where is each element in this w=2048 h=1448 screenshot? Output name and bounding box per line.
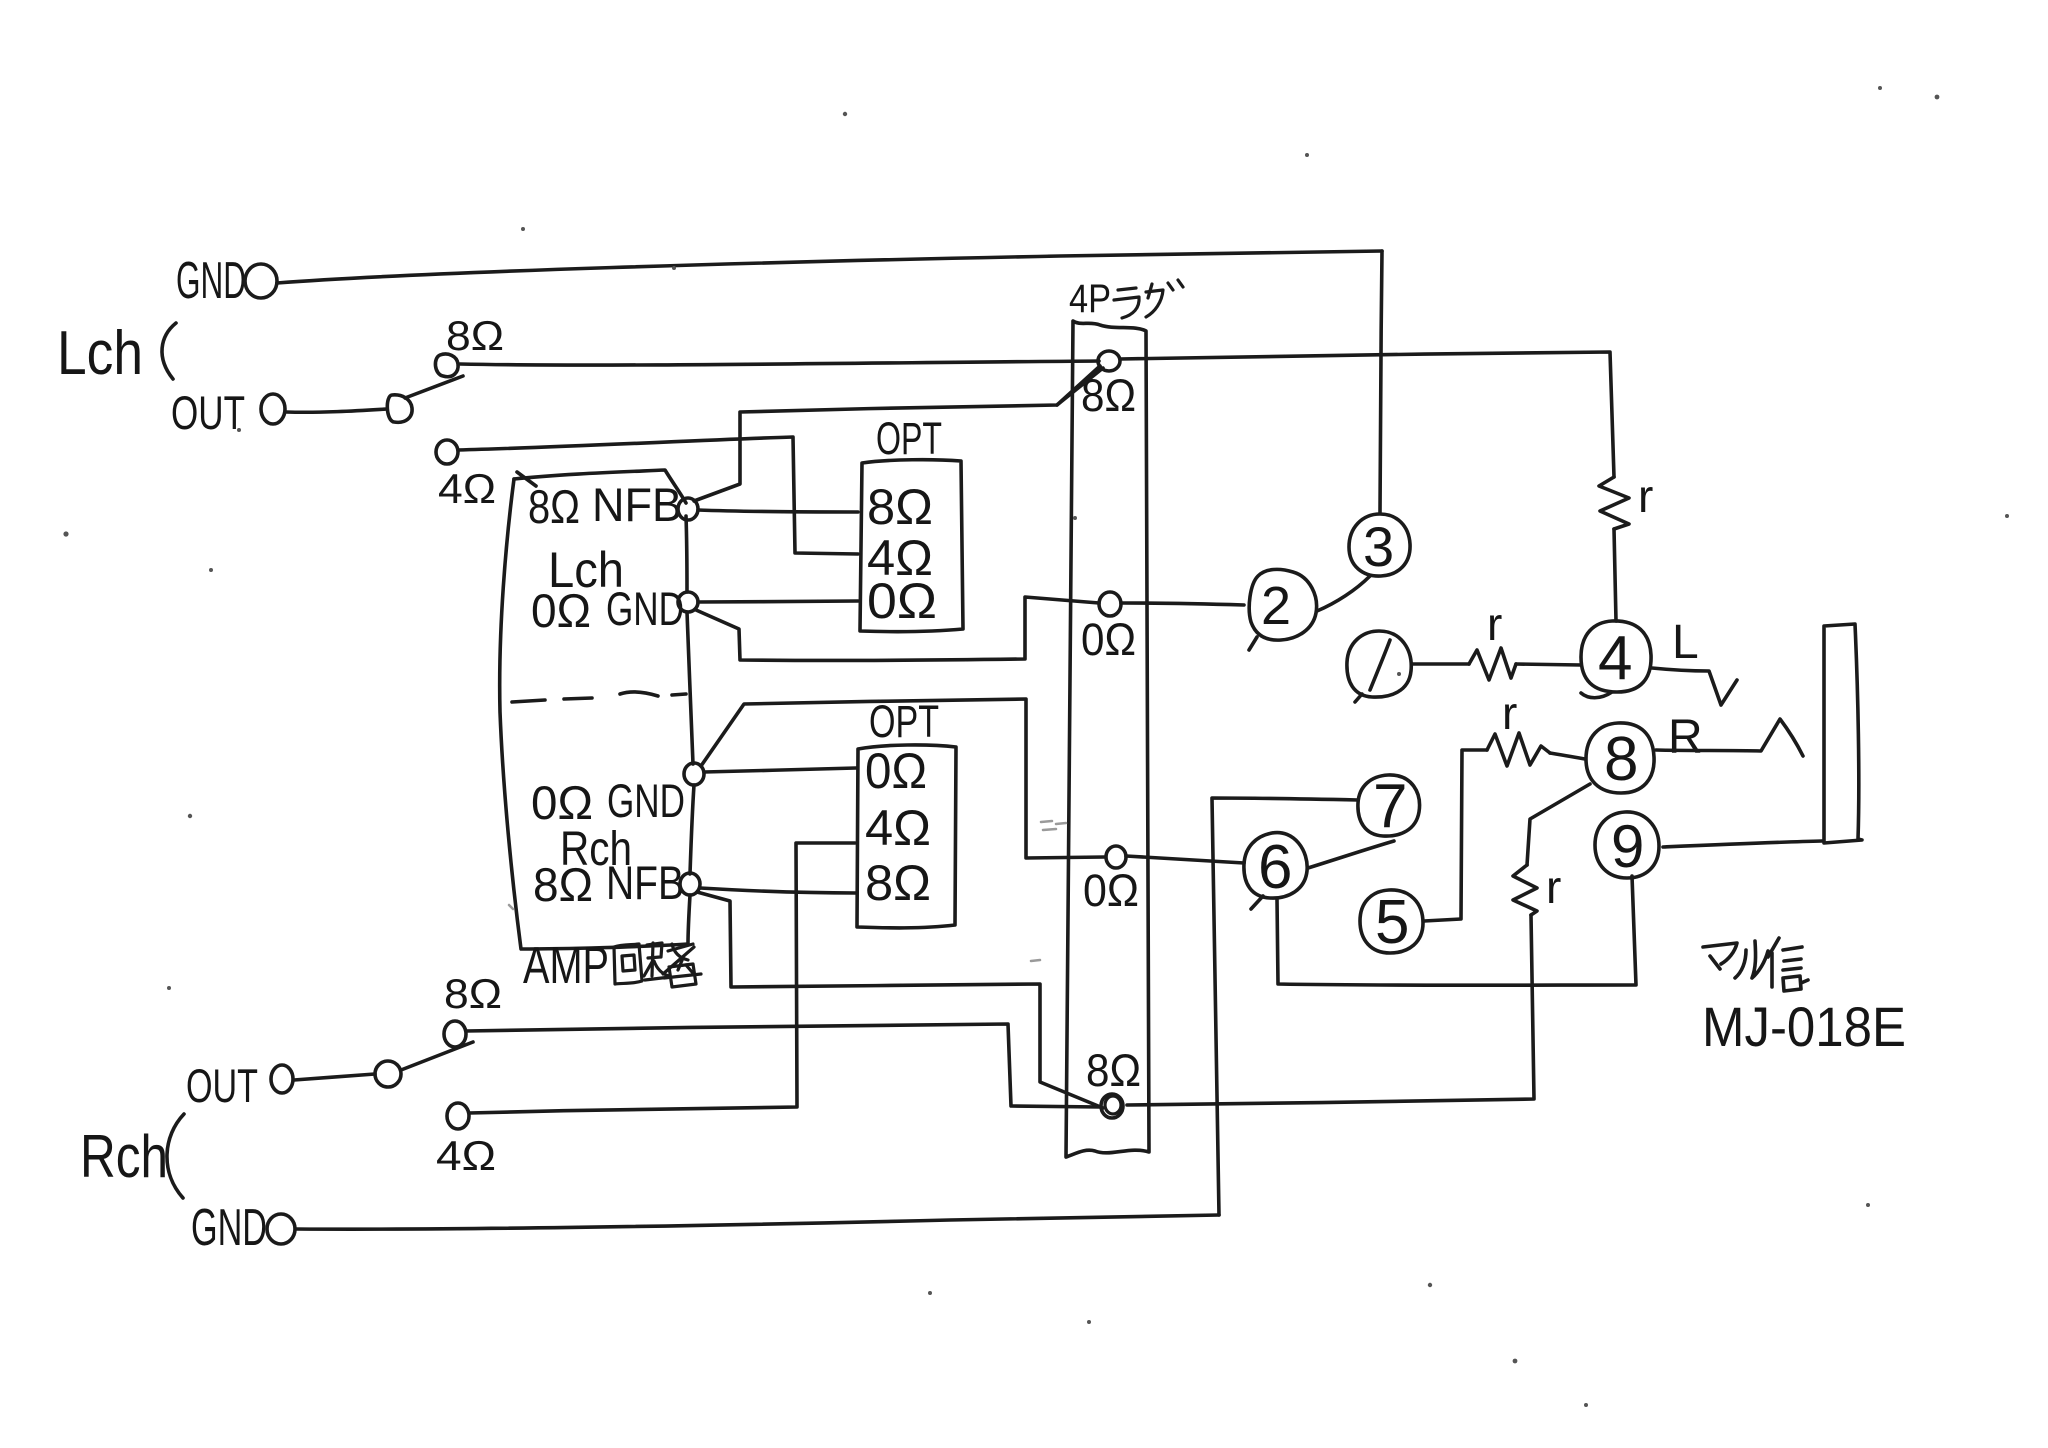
svg-text:GND: GND xyxy=(176,252,246,310)
resistor r2 (horizontal) xyxy=(1469,648,1516,680)
kanji RO (scribbled) xyxy=(644,943,701,987)
svg-text:L: L xyxy=(1672,616,1699,669)
svg-text:8Ω: 8Ω xyxy=(865,855,931,911)
svg-text:8Ω: 8Ω xyxy=(533,858,593,911)
wire: Rch GND over-path to strip terminal 3 xyxy=(701,699,1105,858)
8ohm contact circle (Rch) xyxy=(444,1021,466,1047)
svg-text:0Ω: 0Ω xyxy=(531,584,591,637)
wire: circle 1 to resistor r2 xyxy=(1413,662,1469,666)
AMP GND terminal (Rch) xyxy=(684,763,704,785)
dashed separator inside AMP block xyxy=(512,700,545,702)
OUT terminal circle (Lch) xyxy=(261,394,285,424)
switch pole circle (Lch) xyxy=(387,395,412,422)
kanji SHIN (trust) xyxy=(1768,938,1808,991)
svg-text:Rch: Rch xyxy=(80,1123,168,1190)
GND terminal circle (Lch) xyxy=(245,264,277,298)
wire: circle 8 R output with peak kink xyxy=(1656,719,1803,756)
GND terminal circle (Rch) xyxy=(267,1214,295,1244)
wire: resistor r3 to circle 8 xyxy=(1550,753,1585,759)
link circle 6 to circle 7 xyxy=(1308,841,1394,868)
link curve circle 3 to circle 2 xyxy=(1317,576,1370,611)
svg-text:Lch: Lch xyxy=(57,319,143,388)
SECTION:NOISE xyxy=(509,821,1066,961)
AMP GND terminal (Lch) xyxy=(678,592,698,612)
wire: resistor r2 to circle 4 xyxy=(1516,664,1581,665)
svg-text:2: 2 xyxy=(1261,576,1291,636)
wire: Lch NFB terminal to OPT 8ohm tap xyxy=(698,510,858,512)
svg-text:8Ω: 8Ω xyxy=(867,479,933,535)
wire: Rch NFB riser to strip terminal 4 xyxy=(697,892,1103,1108)
svg-text:OUT: OUT xyxy=(186,1059,258,1112)
wire: circle 9 right to jack plate xyxy=(1663,841,1822,847)
svg-text:OUT: OUT xyxy=(171,386,245,439)
svg-text:5: 5 xyxy=(1375,888,1409,957)
strip terminal 4 (Rch 8ohm) xyxy=(1101,1094,1123,1118)
svg-text:0Ω: 0Ω xyxy=(1083,865,1139,916)
resistor r1 (vertical, Lch) xyxy=(1599,477,1629,529)
svg-text:OPT: OPT xyxy=(869,696,939,747)
wire: circle 7 left to GND rail xyxy=(1212,798,1358,1215)
resistor r4 (vertical, Rch) xyxy=(1513,865,1537,915)
wire: Rch GND terminal to OPT 0ohm tap xyxy=(704,768,856,772)
svg-text:GND: GND xyxy=(606,582,684,635)
katakana RU xyxy=(1735,941,1768,978)
wire: resistor r1 to circle 4 xyxy=(1614,529,1616,621)
circle 6 xyxy=(1244,833,1307,909)
svg-text:8Ω: 8Ω xyxy=(444,970,502,1017)
wire: Lch NFB riser to strip terminal 1 xyxy=(694,366,1100,501)
svg-text:r: r xyxy=(1638,470,1653,522)
svg-text:AMP: AMP xyxy=(523,937,609,995)
wire: vertical down to circle 3 xyxy=(1380,251,1382,513)
8ohm contact circle (Lch) xyxy=(435,354,458,377)
svg-text:0Ω: 0Ω xyxy=(531,776,593,829)
strip terminal 3 (Rch 0ohm) xyxy=(1106,846,1126,868)
wire: OUT to switch pole xyxy=(286,409,387,412)
wire: Rch NFB terminal to OPT 8ohm tap xyxy=(700,888,856,893)
4ohm contact circle (Lch) xyxy=(436,440,458,464)
strip terminal 2 (Lch 0ohm) xyxy=(1099,592,1121,616)
svg-text:4Ω: 4Ω xyxy=(438,465,496,512)
kanji KAI (box in box) xyxy=(614,944,642,984)
switch arm (Lch) xyxy=(405,376,463,398)
wire: circle 4 L output with V kink xyxy=(1652,668,1737,705)
pen tick at AMP top-left corner xyxy=(517,472,536,486)
wire: Lch GND terminal to OPT 0ohm tap xyxy=(698,601,858,602)
circle 8 xyxy=(1586,723,1654,793)
wire: strip terminal 2 to circle 2 xyxy=(1121,603,1244,605)
switch pole circle (Rch) xyxy=(375,1061,401,1087)
svg-text:GND: GND xyxy=(607,774,685,827)
wire: Lch GND under-path to strip terminal 2 xyxy=(696,597,1099,660)
svg-text:8Ω: 8Ω xyxy=(528,480,580,533)
svg-text:4Ω: 4Ω xyxy=(436,1132,496,1179)
AMP block outline xyxy=(514,470,686,503)
svg-text:r: r xyxy=(1546,861,1561,913)
circle 9 xyxy=(1595,812,1659,878)
wire: Lch GND to top right corner xyxy=(277,251,1382,283)
svg-text:R: R xyxy=(1668,711,1703,764)
4P lug strip body xyxy=(1066,321,1149,1157)
wire: Rch 8ohm contact right, down, to strip terminal 4 xyxy=(466,1024,1101,1107)
wire: Lch 8ohm contact to strip terminal 1 xyxy=(460,361,1099,365)
speaker jack plate xyxy=(1824,624,1862,843)
circle 7 xyxy=(1358,775,1420,836)
svg-text:4: 4 xyxy=(1598,624,1632,693)
wire: Lch 4ohm contact right then down to OPT 4ohm tap xyxy=(458,437,858,554)
wire: circle 6 bottom loop to circle 9 xyxy=(1277,876,1636,985)
svg-text:9: 9 xyxy=(1611,813,1644,880)
wire: strip terminal 3 to circle 6 xyxy=(1126,856,1244,863)
maru-shin brand (katakana MA) xyxy=(1703,943,1737,969)
svg-text:8: 8 xyxy=(1604,725,1638,794)
wire: strip terminal 1 diagonal to NFB riser end xyxy=(1057,368,1103,405)
switch arm (Rch) xyxy=(401,1042,473,1070)
OUT terminal circle (Rch) xyxy=(271,1065,293,1093)
svg-text:0Ω: 0Ω xyxy=(865,743,927,799)
wire: Rch 4ohm contact right then up to OPT 4ohm tap xyxy=(469,843,855,1113)
svg-text:GND: GND xyxy=(191,1199,267,1257)
circle 2 xyxy=(1249,569,1317,650)
circle 1 xyxy=(1347,631,1411,702)
wire: Rch OUT to switch pole xyxy=(294,1074,375,1080)
AMP NFB terminal (Lch) xyxy=(678,498,698,520)
circle 3 xyxy=(1349,514,1410,576)
svg-text:NFB: NFB xyxy=(606,856,684,909)
wire: resistor r4 down then left to strip terminal 4 xyxy=(1127,915,1534,1105)
svg-text:0Ω: 0Ω xyxy=(867,573,937,629)
katakana GU with dakuten xyxy=(1146,280,1183,317)
svg-text:3: 3 xyxy=(1363,515,1394,578)
wire: circle 8 diagonal down to resistor r4 xyxy=(1527,784,1590,865)
wire: strip terminal 1 to top-right corner, down to resistor r1 xyxy=(1120,352,1614,477)
4ohm contact circle (Rch) xyxy=(447,1103,469,1129)
svg-text:6: 6 xyxy=(1258,833,1292,902)
svg-text:r: r xyxy=(1502,687,1517,739)
katakana RA xyxy=(1114,288,1139,318)
resistor r3 (horizontal, Rch) xyxy=(1487,733,1550,766)
wire: circle 5 up to resistor r3 xyxy=(1424,750,1487,921)
circle 5 xyxy=(1360,890,1423,953)
svg-text:OPT: OPT xyxy=(876,413,942,464)
AMP NFB terminal (Rch) xyxy=(680,873,700,895)
svg-text:MJ-018E: MJ-018E xyxy=(1702,995,1906,1058)
svg-text:8Ω: 8Ω xyxy=(446,312,504,359)
svg-text:NFB: NFB xyxy=(592,478,682,531)
svg-text:7: 7 xyxy=(1373,772,1407,841)
svg-text:4P: 4P xyxy=(1069,277,1111,321)
strip terminal 1 (Lch 8ohm) xyxy=(1098,351,1120,371)
svg-text:8Ω: 8Ω xyxy=(1086,1045,1141,1096)
svg-text:r: r xyxy=(1487,598,1502,650)
svg-text:0Ω: 0Ω xyxy=(1081,614,1136,665)
wire: Rch GND to vertical rail of circle 7 xyxy=(296,1215,1219,1229)
circle 4 xyxy=(1581,621,1651,698)
svg-text:4Ω: 4Ω xyxy=(865,800,931,856)
